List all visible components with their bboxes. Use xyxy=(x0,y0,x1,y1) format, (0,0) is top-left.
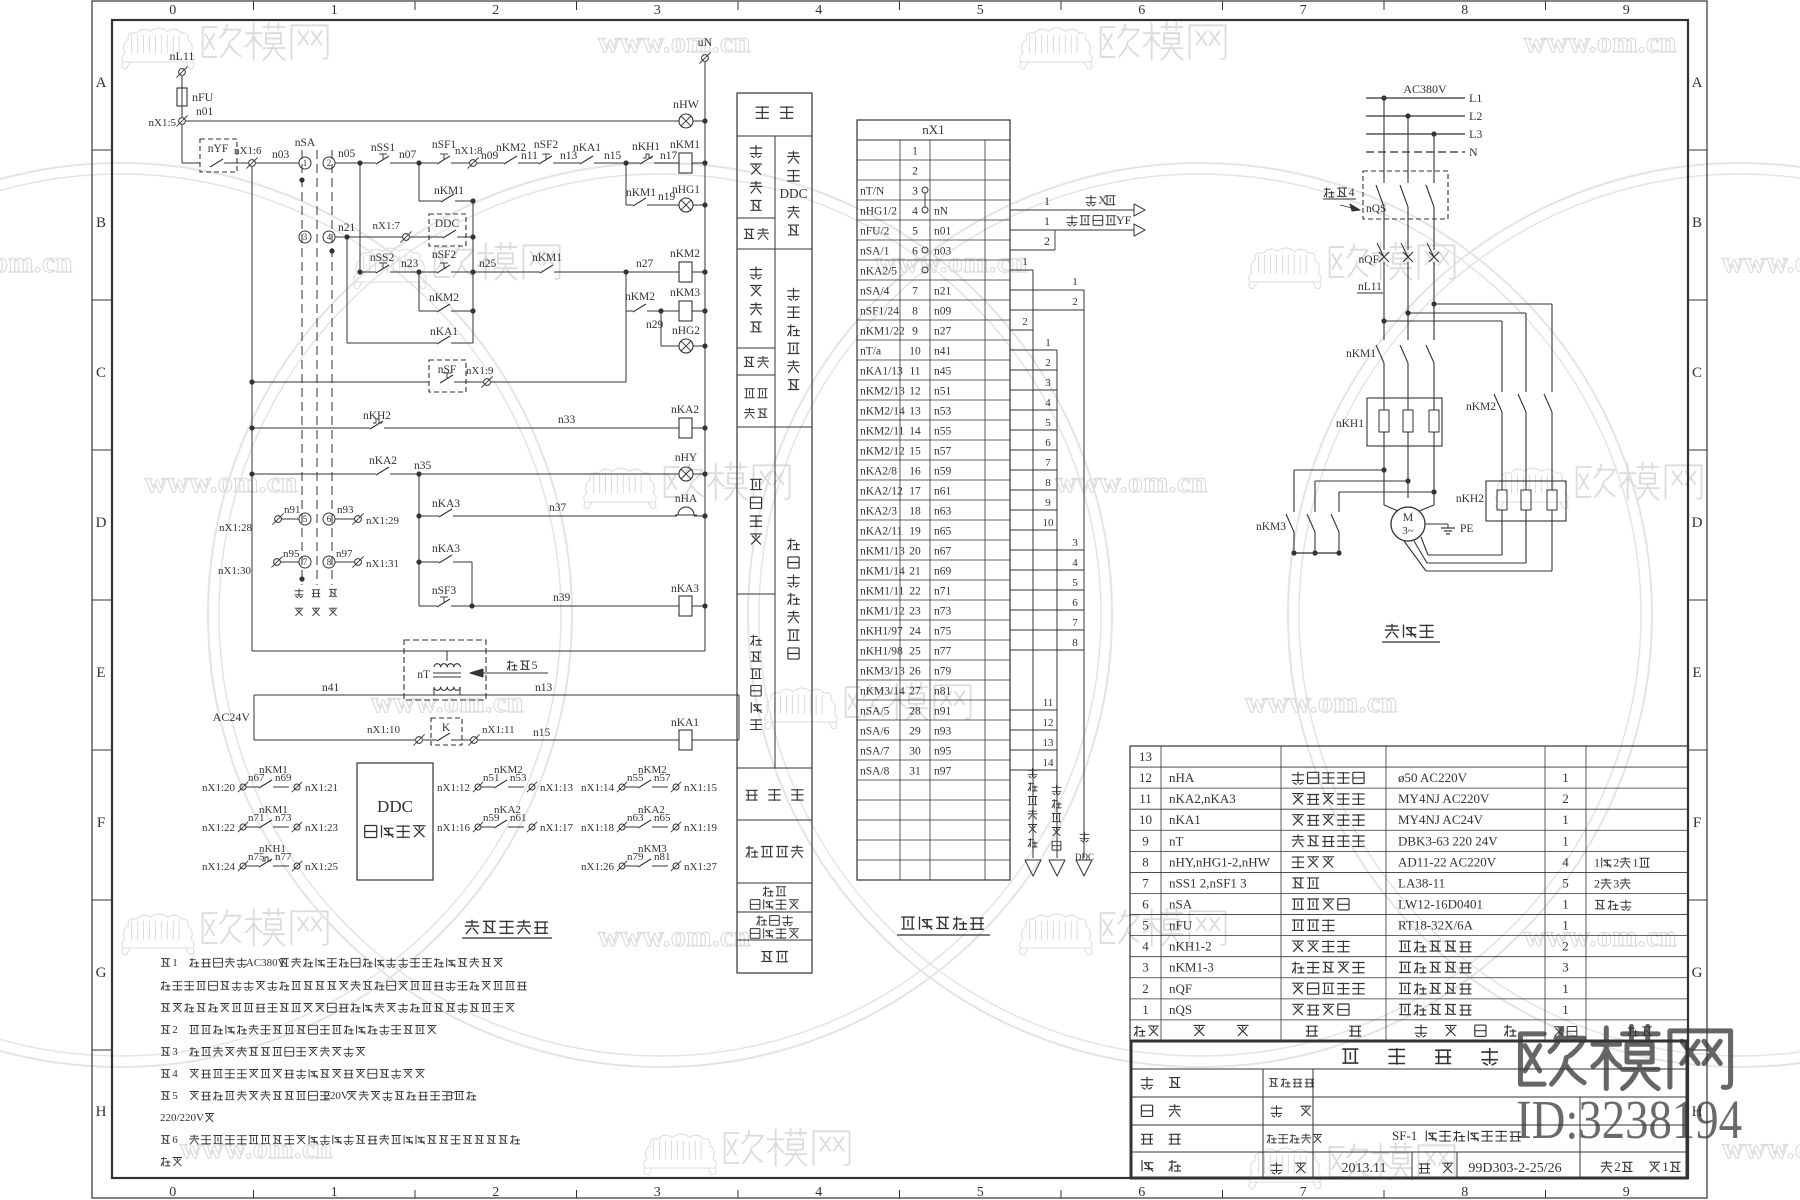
svg-text:nX1:27: nX1:27 xyxy=(684,861,718,873)
svg-text:n91: n91 xyxy=(284,504,301,516)
bus to fire center xyxy=(1056,350,1058,858)
svg-text:1: 1 xyxy=(1142,1002,1149,1017)
contact nSF emergency xyxy=(249,379,254,384)
svg-text:nX1:30: nX1:30 xyxy=(218,565,252,577)
decor xyxy=(0,163,572,1067)
svg-text:nKM3: nKM3 xyxy=(1256,521,1286,533)
svg-text:n53: n53 xyxy=(934,406,952,418)
wire n17 xyxy=(654,162,679,164)
svg-text:n45: n45 xyxy=(934,366,952,378)
contact nKH2 thermal xyxy=(249,425,254,430)
svg-text:nT: nT xyxy=(1169,833,1184,848)
svg-text:nX1:25: nX1:25 xyxy=(305,861,339,873)
svg-text:nKH2: nKH2 xyxy=(1456,493,1484,505)
svg-text:nKA2/3: nKA2/3 xyxy=(860,506,897,518)
svg-text:n25: n25 xyxy=(479,258,497,270)
svg-text:www.om.cn: www.om.cn xyxy=(371,686,524,719)
svg-text:nKA1: nKA1 xyxy=(430,326,458,338)
svg-text:nX1:28: nX1:28 xyxy=(219,522,253,534)
svg-text:4: 4 xyxy=(327,232,332,242)
svg-text:N: N xyxy=(1469,145,1478,159)
svg-text:nKH2: nKH2 xyxy=(363,410,391,422)
svg-text:99D303-2-25/26: 99D303-2-25/26 xyxy=(1468,1161,1561,1176)
svg-text:23: 23 xyxy=(909,606,921,618)
svg-text:1: 1 xyxy=(1562,896,1569,911)
svg-text:3: 3 xyxy=(912,186,918,198)
svg-text:6: 6 xyxy=(1072,597,1078,609)
svg-text:n93: n93 xyxy=(337,504,354,516)
svg-text:nKM1/11: nKM1/11 xyxy=(860,586,905,598)
title block xyxy=(1131,1041,1687,1178)
svg-text:6: 6 xyxy=(1138,1185,1145,1200)
svg-text:3: 3 xyxy=(654,3,661,18)
svg-text:2: 2 xyxy=(1072,296,1078,308)
svg-text:PE: PE xyxy=(1460,523,1473,535)
svg-text:nX1:29: nX1:29 xyxy=(366,515,400,527)
svg-text:5: 5 xyxy=(172,1090,178,1102)
svg-text:27: 27 xyxy=(909,686,921,698)
wire nSA bus x347 xyxy=(346,237,348,343)
svg-text:n97: n97 xyxy=(934,766,952,778)
wire nSF to nKM3 row xyxy=(625,272,627,382)
svg-text:0: 0 xyxy=(169,3,176,18)
svg-text:1: 1 xyxy=(912,146,918,158)
terminal table jumpers xyxy=(922,187,928,193)
svg-text:RT18-32X/6A: RT18-32X/6A xyxy=(1398,918,1474,933)
svg-text:nX1:31: nX1:31 xyxy=(366,558,399,570)
svg-text:nX1:26: nX1:26 xyxy=(581,861,615,873)
svg-text:3: 3 xyxy=(1045,377,1051,389)
svg-text:nL11: nL11 xyxy=(170,49,195,63)
svg-text:nKA1: nKA1 xyxy=(671,717,699,729)
svg-text:nSA: nSA xyxy=(295,137,316,149)
pushbutton nSF3 xyxy=(419,605,437,607)
svg-text:DDC: DDC xyxy=(435,218,460,230)
wires to motor xyxy=(1383,446,1385,505)
svg-text:3: 3 xyxy=(1072,537,1078,549)
svg-text:n13: n13 xyxy=(535,682,553,694)
svg-text:2: 2 xyxy=(1044,234,1050,248)
svg-text:nKM3/14: nKM3/14 xyxy=(860,686,905,698)
wire n13 xyxy=(553,162,580,164)
svg-text:6: 6 xyxy=(172,1134,178,1146)
svg-text:2: 2 xyxy=(1045,357,1051,369)
svg-text:F: F xyxy=(1693,815,1701,831)
svg-text:nX1:7: nX1:7 xyxy=(373,220,401,232)
svg-text:12: 12 xyxy=(909,386,921,398)
svg-text:nX1:14: nX1:14 xyxy=(581,782,615,794)
svg-text:nKM2/11: nKM2/11 xyxy=(860,426,905,438)
svg-text:0: 0 xyxy=(169,1185,176,1200)
svg-text:nKM2: nKM2 xyxy=(625,291,655,303)
svg-text:n65: n65 xyxy=(654,812,671,824)
contact nKA3 hold xyxy=(416,559,421,564)
svg-text:3: 3 xyxy=(1562,960,1569,975)
svg-text:nKH1/97: nKH1/97 xyxy=(860,626,903,638)
svg-text:5: 5 xyxy=(1045,417,1051,429)
svg-text:nKA1: nKA1 xyxy=(573,142,601,154)
wire n25 xyxy=(451,271,540,273)
svg-text:nKM3/13: nKM3/13 xyxy=(860,666,905,678)
ground PE xyxy=(1425,523,1448,525)
fuse nFU xyxy=(177,88,187,106)
svg-text:7: 7 xyxy=(1072,617,1078,629)
svg-text:13: 13 xyxy=(1139,749,1152,764)
svg-text:5: 5 xyxy=(1072,577,1078,589)
svg-text:6: 6 xyxy=(327,514,332,524)
svg-text:n75: n75 xyxy=(934,626,952,638)
svg-text:nSS1 2,nSF1 3: nSS1 2,nSF1 3 xyxy=(1169,875,1247,890)
svg-text:ID:3238194: ID:3238194 xyxy=(1516,1089,1742,1150)
svg-text:5: 5 xyxy=(912,226,918,238)
svg-text:L3: L3 xyxy=(1469,127,1482,141)
svg-text:C: C xyxy=(1692,365,1702,381)
svg-text:n67: n67 xyxy=(934,546,952,558)
svg-text:n01: n01 xyxy=(196,106,214,118)
svg-text:nKM1-3: nKM1-3 xyxy=(1169,960,1214,975)
svg-text:nKA2,nKA3: nKA2,nKA3 xyxy=(1169,791,1236,806)
svg-text:7: 7 xyxy=(303,557,308,567)
svg-text:2: 2 xyxy=(1142,981,1149,996)
svg-text:MY4NJ AC24V: MY4NJ AC24V xyxy=(1398,812,1483,827)
svg-text:7: 7 xyxy=(1300,3,1307,18)
svg-text:3: 3 xyxy=(654,1185,661,1200)
svg-text:nHG1: nHG1 xyxy=(672,184,700,196)
svg-text:nHA: nHA xyxy=(1169,770,1195,785)
wire to nKM2 branch xyxy=(1381,318,1386,323)
switch position labels xyxy=(295,589,304,598)
left bus xyxy=(251,167,253,651)
svg-text:4: 4 xyxy=(1072,557,1078,569)
svg-text:29: 29 xyxy=(909,726,921,738)
svg-text:n27: n27 xyxy=(934,326,952,338)
svg-text:11: 11 xyxy=(1043,697,1054,709)
wires nKH2 to motor xyxy=(1501,521,1503,555)
terminal nX1:5 xyxy=(179,118,186,125)
svg-text:n27: n27 xyxy=(636,258,654,270)
svg-text:nSS1: nSS1 xyxy=(371,142,396,154)
svg-text:nX1:23: nX1:23 xyxy=(305,822,339,834)
svg-text:nKA1/13: nKA1/13 xyxy=(860,366,903,378)
svg-text:H: H xyxy=(1692,1104,1703,1120)
svg-text:nKM2/14: nKM2/14 xyxy=(860,406,905,418)
parts list table xyxy=(1130,746,1688,1041)
notes xyxy=(161,959,170,967)
bus to fire linkage panel xyxy=(1032,270,1034,858)
svg-text:n77: n77 xyxy=(934,646,952,658)
svg-text:16: 16 xyxy=(909,466,921,478)
svg-text:nKH1-2: nKH1-2 xyxy=(1169,939,1212,954)
svg-text:LA38-11: LA38-11 xyxy=(1398,875,1445,890)
svg-text:nKA2/12: nKA2/12 xyxy=(860,486,903,498)
wire n05 xyxy=(335,162,376,164)
svg-text:L1: L1 xyxy=(1469,91,1482,105)
svg-text:nKM1/22: nKM1/22 xyxy=(860,326,905,338)
svg-text:YF: YF xyxy=(1116,213,1132,227)
svg-text:n15: n15 xyxy=(604,150,622,162)
svg-text:n21: n21 xyxy=(934,286,952,298)
svg-text:n21: n21 xyxy=(338,222,356,234)
svg-text:3: 3 xyxy=(303,232,308,242)
svg-text:4: 4 xyxy=(1142,939,1149,954)
contact K DDC xyxy=(431,718,462,745)
lamp nHG1 row xyxy=(625,163,627,205)
svg-text:n55: n55 xyxy=(934,426,952,438)
svg-text:1: 1 xyxy=(1562,981,1569,996)
note4 pointer xyxy=(1324,187,1347,197)
svg-text:220V: 220V xyxy=(324,1090,349,1102)
terminal nX1:6 xyxy=(237,162,248,164)
svg-text:12: 12 xyxy=(1139,770,1152,785)
svg-text:nX1:10: nX1:10 xyxy=(367,724,401,736)
svg-text:4: 4 xyxy=(815,3,822,18)
contact nKA3 bell xyxy=(416,513,421,518)
svg-text:nX1:8: nX1:8 xyxy=(455,145,483,157)
svg-text:nSF2: nSF2 xyxy=(432,249,457,261)
svg-text:nX1:20: nX1:20 xyxy=(202,782,236,794)
svg-text:www.om.cn: www.om.cn xyxy=(0,246,73,279)
thermal relay nKH1 xyxy=(1367,398,1442,446)
svg-text:31: 31 xyxy=(909,766,921,778)
svg-text:www.om.cn: www.om.cn xyxy=(1524,26,1677,59)
svg-text:4: 4 xyxy=(1562,854,1569,869)
svg-text:5: 5 xyxy=(1562,875,1569,890)
bus to DDC xyxy=(1083,290,1085,858)
svg-text:2: 2 xyxy=(912,166,918,178)
svg-text:6: 6 xyxy=(912,246,918,258)
svg-text:n15: n15 xyxy=(533,727,551,739)
svg-text:2: 2 xyxy=(1614,1159,1621,1174)
thermal relay nKH2 xyxy=(1486,481,1566,521)
svg-text:C: C xyxy=(96,365,106,381)
svg-text:nHW: nHW xyxy=(673,97,700,111)
wire right rail N xyxy=(704,62,706,651)
svg-text:1: 1 xyxy=(1562,918,1569,933)
svg-text:G: G xyxy=(1692,965,1703,981)
svg-text:28: 28 xyxy=(909,706,921,718)
svg-text:AC24V: AC24V xyxy=(213,710,251,724)
svg-text:nX1:13: nX1:13 xyxy=(540,782,574,794)
svg-text:nSF2: nSF2 xyxy=(534,139,559,151)
svg-text:n59: n59 xyxy=(934,466,952,478)
svg-text:nX1:16: nX1:16 xyxy=(437,822,471,834)
svg-text:2: 2 xyxy=(1562,791,1569,806)
svg-text:8: 8 xyxy=(1461,1185,1468,1200)
svg-text:DDC: DDC xyxy=(1075,852,1094,862)
contact nKM2 aux xyxy=(418,272,420,311)
svg-text:26: 26 xyxy=(909,666,921,678)
svg-text:n39: n39 xyxy=(553,592,571,604)
svg-text:nSS2: nSS2 xyxy=(370,252,395,264)
svg-text:7: 7 xyxy=(1045,457,1051,469)
svg-text:nQS: nQS xyxy=(1169,1002,1192,1017)
svg-text:nKM2: nKM2 xyxy=(429,292,459,304)
svg-text:nFU: nFU xyxy=(192,90,214,104)
svg-text:nX1:15: nX1:15 xyxy=(684,782,718,794)
svg-text:1: 1 xyxy=(1562,812,1569,827)
svg-text:2: 2 xyxy=(327,158,332,168)
node n21 row xyxy=(299,231,311,243)
svg-text:nQF: nQF xyxy=(1169,981,1192,996)
wire n09 xyxy=(477,162,504,164)
wires to fire control xyxy=(1010,209,1134,211)
svg-text:n11: n11 xyxy=(521,150,538,162)
svg-text:www.om.cn: www.om.cn xyxy=(875,246,1028,279)
svg-text:n37: n37 xyxy=(549,502,567,514)
svg-text:13: 13 xyxy=(909,406,921,418)
svg-text:1: 1 xyxy=(1045,337,1051,349)
svg-text:7: 7 xyxy=(1142,875,1149,890)
svg-text:17: 17 xyxy=(909,486,921,498)
svg-text:www.om.cn: www.om.cn xyxy=(1055,466,1208,499)
svg-text:nX1:22: nX1:22 xyxy=(202,822,235,834)
svg-text:nSF3: nSF3 xyxy=(432,585,457,597)
svg-text:F: F xyxy=(97,815,105,831)
svg-text:n05: n05 xyxy=(338,148,356,160)
svg-text:nSF1: nSF1 xyxy=(432,139,457,151)
svg-text:nSF1/24: nSF1/24 xyxy=(860,306,899,318)
svg-text:1: 1 xyxy=(1662,1159,1669,1174)
svg-text:9: 9 xyxy=(1142,833,1149,848)
svg-text:1: 1 xyxy=(331,3,338,18)
svg-text:7: 7 xyxy=(1300,1185,1307,1200)
svg-text:nX1:5: nX1:5 xyxy=(149,117,177,129)
svg-text:4: 4 xyxy=(912,206,918,218)
transformer nT xyxy=(404,640,486,700)
svg-text:T: T xyxy=(448,1090,455,1102)
svg-text:n97: n97 xyxy=(336,548,353,560)
svg-text:nX1:11: nX1:11 xyxy=(482,724,515,736)
svg-text:1: 1 xyxy=(1072,276,1078,288)
svg-text:n03: n03 xyxy=(934,246,952,258)
svg-text:www.om.cn: www.om.cn xyxy=(1524,920,1677,953)
function label column xyxy=(737,93,812,973)
title external wiring xyxy=(901,917,984,931)
svg-text:nX1:6: nX1:6 xyxy=(234,145,262,157)
svg-text:1: 1 xyxy=(331,1185,338,1200)
svg-text:nHA: nHA xyxy=(675,493,698,505)
svg-text:B: B xyxy=(1692,215,1702,231)
svg-text:www.om.cn: www.om.cn xyxy=(1245,686,1398,719)
svg-text:1: 1 xyxy=(172,957,178,969)
svg-text:AC380V: AC380V xyxy=(246,957,286,969)
contact DDC xyxy=(429,214,466,246)
svg-text:n51: n51 xyxy=(934,386,952,398)
svg-text:nHY: nHY xyxy=(675,452,698,464)
svg-text:8: 8 xyxy=(327,557,332,567)
svg-text:3: 3 xyxy=(1613,876,1619,890)
svg-text:n23: n23 xyxy=(401,258,419,270)
svg-text:n61: n61 xyxy=(934,486,952,498)
svg-text:nL11: nL11 xyxy=(1358,281,1382,293)
svg-text:13: 13 xyxy=(1043,737,1055,749)
svg-text:n71: n71 xyxy=(934,586,952,598)
svg-text:n69: n69 xyxy=(275,772,292,784)
svg-text:nKH1: nKH1 xyxy=(632,141,660,153)
svg-text:8: 8 xyxy=(912,306,918,318)
svg-text:10: 10 xyxy=(1139,812,1152,827)
contact nKA1 aux xyxy=(347,342,437,344)
svg-text:6: 6 xyxy=(1142,896,1149,911)
svg-text:nSA/8: nSA/8 xyxy=(860,766,890,778)
svg-text:n91: n91 xyxy=(934,706,952,718)
svg-text:11: 11 xyxy=(1139,791,1152,806)
svg-text:nKH1: nKH1 xyxy=(1336,418,1364,430)
svg-text:D: D xyxy=(96,515,107,531)
svg-text:8: 8 xyxy=(1461,3,1468,18)
contact nYF xyxy=(200,139,237,172)
lamp nHG2 xyxy=(660,311,662,346)
wire DDC branch vertical xyxy=(472,201,474,343)
svg-text:nX1:24: nX1:24 xyxy=(202,861,236,873)
svg-text:1: 1 xyxy=(1562,770,1569,785)
svg-text:nT/N: nT/N xyxy=(860,186,885,198)
svg-text:n41: n41 xyxy=(322,682,340,694)
svg-text:14: 14 xyxy=(909,426,921,438)
wire n27 xyxy=(554,271,679,273)
svg-text:n79: n79 xyxy=(934,666,952,678)
svg-text:nX1: nX1 xyxy=(922,122,944,137)
svg-text:24: 24 xyxy=(909,626,921,638)
svg-text:A: A xyxy=(96,75,107,91)
svg-text:n17: n17 xyxy=(660,150,678,162)
svg-text:19: 19 xyxy=(909,526,921,538)
svg-text:nSA/1: nSA/1 xyxy=(860,246,890,258)
svg-text:nHG1/2: nHG1/2 xyxy=(860,206,897,218)
contact nKM2 interlock2 xyxy=(625,272,627,311)
svg-text:5: 5 xyxy=(531,658,537,672)
terminal nX1:8 xyxy=(451,162,469,164)
svg-text:n73: n73 xyxy=(934,606,952,618)
svg-text:n69: n69 xyxy=(934,566,952,578)
svg-text:nHG2: nHG2 xyxy=(672,325,700,337)
wire fuse to nX1:5 xyxy=(181,106,183,117)
svg-text:nSA/7: nSA/7 xyxy=(860,746,890,758)
svg-text:n65: n65 xyxy=(934,526,952,538)
svg-text:n53: n53 xyxy=(510,772,527,784)
wire AC24V loop xyxy=(254,694,739,696)
svg-text:nX1:18: nX1:18 xyxy=(581,822,615,834)
svg-text:n03: n03 xyxy=(272,149,290,161)
svg-text:nKM1: nKM1 xyxy=(434,185,464,197)
svg-text:3~: 3~ xyxy=(1402,525,1414,537)
svg-text:9: 9 xyxy=(1623,1185,1630,1200)
svg-text:n57: n57 xyxy=(654,772,671,784)
svg-text:4: 4 xyxy=(815,1185,822,1200)
svg-text:4: 4 xyxy=(1348,185,1354,199)
svg-text:nKM1/13: nKM1/13 xyxy=(860,546,905,558)
svg-text:7: 7 xyxy=(912,286,918,298)
disconnect nQS xyxy=(1383,98,1385,175)
svg-text:20: 20 xyxy=(909,546,921,558)
svg-text:nFU/2: nFU/2 xyxy=(860,226,890,238)
svg-text:1: 1 xyxy=(1044,194,1050,208)
svg-text:1: 1 xyxy=(1044,214,1050,228)
svg-text:220/220V: 220/220V xyxy=(160,1112,204,1124)
svg-text:4: 4 xyxy=(172,1068,178,1080)
svg-text:5: 5 xyxy=(977,1185,984,1200)
svg-text:nKM2: nKM2 xyxy=(670,248,700,260)
svg-text:1: 1 xyxy=(1594,855,1600,869)
svg-text:18: 18 xyxy=(909,506,921,518)
note5 pointer xyxy=(507,660,530,670)
svg-text:AD11-22 AC220V: AD11-22 AC220V xyxy=(1398,854,1497,869)
svg-text:10: 10 xyxy=(1043,517,1055,529)
svg-text:2: 2 xyxy=(492,1185,499,1200)
svg-text:uN: uN xyxy=(698,35,713,49)
contact nKM1 aux self-hold xyxy=(418,163,420,201)
svg-text:6: 6 xyxy=(1138,3,1145,18)
